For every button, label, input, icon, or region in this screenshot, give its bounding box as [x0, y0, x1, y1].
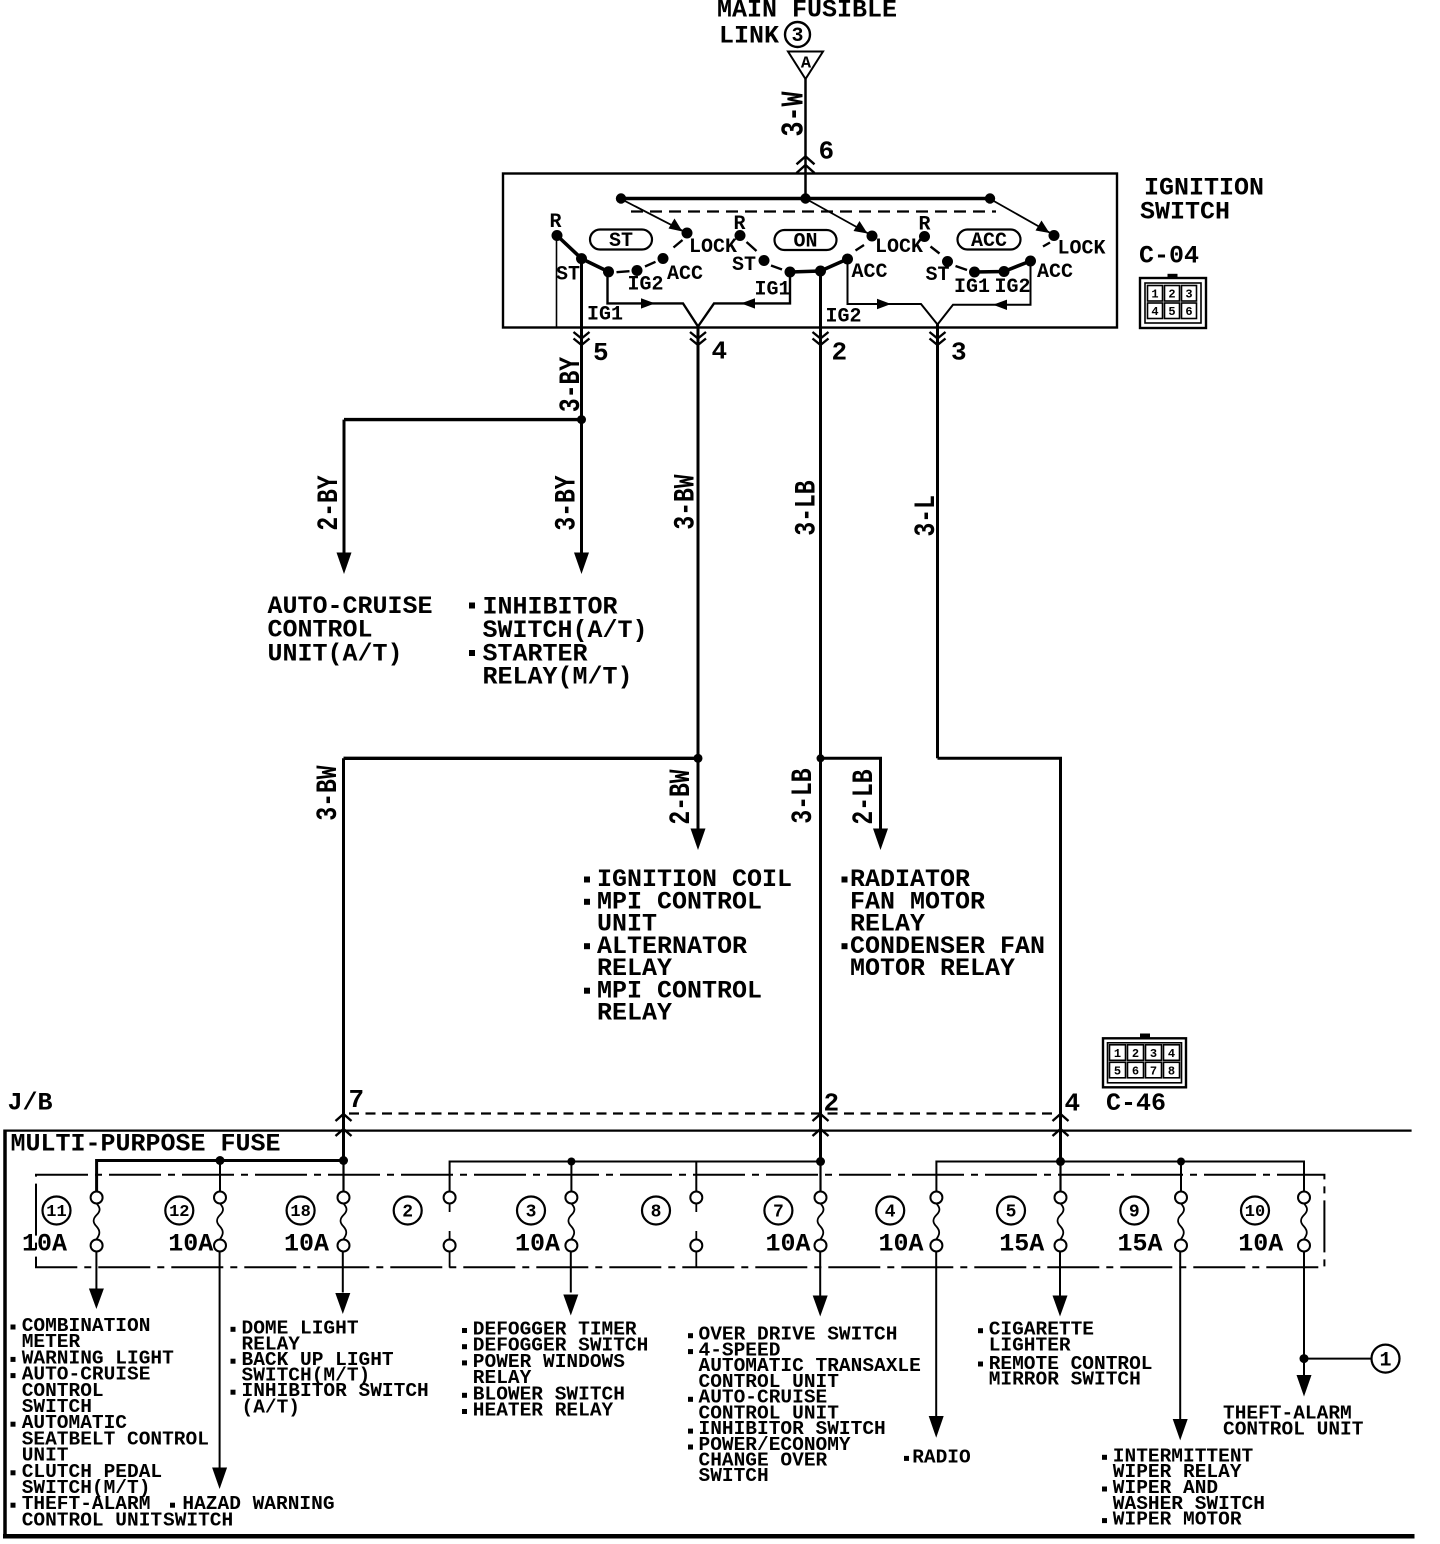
ST pill	[590, 230, 652, 254]
arrow 2-BY	[337, 553, 352, 575]
svg-text:ACC: ACC	[667, 263, 703, 286]
wire fuse9 out	[1179, 1252, 1181, 1420]
svg-text:3: 3	[1150, 1047, 1157, 1061]
wire fuse4 out	[935, 1252, 937, 1417]
svg-text:3-BW: 3-BW	[670, 474, 704, 529]
wire 3-W	[804, 79, 807, 199]
svg-text:SWITCH: SWITCH	[1140, 198, 1230, 227]
svg-text:4: 4	[885, 1203, 896, 1223]
wire fuse10 out	[1303, 1252, 1305, 1376]
svg-text:3: 3	[951, 338, 967, 368]
svg-text:2: 2	[1132, 1047, 1139, 1061]
wire 3-BW long down	[342, 758, 345, 1161]
label INHIBITOR STARTER	[469, 593, 648, 692]
label IGNITION COIL block	[584, 865, 792, 1027]
svg-text:LOCK: LOCK	[875, 236, 923, 259]
ON contact labels	[732, 213, 923, 328]
svg-text:10A: 10A	[765, 1230, 810, 1259]
wire 3-L corner right	[938, 758, 1061, 1161]
svg-text:3: 3	[791, 25, 803, 48]
svg-text:ACC: ACC	[1037, 261, 1073, 284]
wire branch left long	[344, 757, 699, 760]
svg-text:R: R	[734, 213, 746, 236]
svg-text:MOTOR RELAY: MOTOR RELAY	[850, 954, 1015, 983]
svg-text:2-BW: 2-BW	[665, 769, 699, 824]
bus wire inside switch	[621, 197, 990, 200]
node branch 5	[577, 415, 586, 424]
fuse 9	[1117, 1192, 1187, 1259]
label radio	[904, 1446, 971, 1468]
svg-text:3-L: 3-L	[910, 495, 944, 536]
svg-text:5: 5	[1114, 1065, 1121, 1079]
label dome light block	[231, 1317, 429, 1418]
wire label 3-W	[777, 91, 812, 136]
connector chevrons pin 4 JB	[1053, 1114, 1069, 1136]
svg-text:ON: ON	[793, 231, 817, 254]
wire IG2 mid to pin 2	[819, 273, 822, 328]
label AUTO-CRUISE CONTROL UNIT	[268, 592, 433, 668]
svg-text:RADIO: RADIO	[912, 1446, 971, 1468]
fuse 8 empty	[642, 1192, 702, 1268]
ON arc dashes	[747, 242, 865, 270]
svg-text:LOCK: LOCK	[1058, 237, 1106, 260]
svg-text:CONTROL UNIT: CONTROL UNIT	[1223, 1418, 1364, 1440]
ignition switch box	[503, 174, 1117, 328]
connector chevrons pin 2 JB	[813, 1114, 829, 1136]
svg-text:10A: 10A	[878, 1230, 923, 1259]
fuse panel dash-dot border	[36, 1175, 1324, 1268]
label combination meter block	[11, 1315, 209, 1531]
connector chevrons pin 3	[930, 332, 946, 345]
svg-text:6: 6	[1185, 305, 1192, 319]
svg-text:RELAY(M/T): RELAY(M/T)	[483, 663, 633, 692]
svg-text:2: 2	[402, 1203, 413, 1223]
ACC contact labels	[919, 213, 1106, 298]
svg-text:4: 4	[712, 337, 728, 367]
dashed rotor line	[631, 210, 996, 212]
svg-text:1: 1	[1114, 1047, 1121, 1061]
svg-text:CONTROL UNIT: CONTROL UNIT	[22, 1509, 163, 1531]
rotor arm mid	[808, 200, 871, 235]
svg-text:8: 8	[1168, 1065, 1175, 1079]
rotor arm right	[992, 200, 1053, 235]
svg-text:15A: 15A	[1117, 1230, 1162, 1259]
svg-text:9: 9	[1129, 1203, 1140, 1223]
wire label 2-BY	[313, 475, 347, 530]
wire R drop	[556, 237, 558, 327]
ST switch contacts	[552, 228, 693, 278]
wire label 3-LB lower	[787, 768, 821, 823]
node bus left	[616, 193, 626, 203]
node bus right	[985, 193, 995, 203]
wire branch left	[344, 418, 582, 421]
bus C	[936, 1162, 1304, 1192]
svg-text:15A: 15A	[999, 1230, 1044, 1259]
multi-purpose fuse box	[5, 1129, 1412, 1131]
svg-text:3: 3	[526, 1203, 537, 1223]
label RADIATOR FAN block	[842, 865, 1046, 983]
fuse 12	[165, 1192, 226, 1259]
svg-text:10A: 10A	[284, 1230, 329, 1259]
label hazard warning switch	[163, 1493, 335, 1531]
svg-text:SWITCH: SWITCH	[699, 1465, 769, 1487]
wire label 3-BW lower	[312, 765, 346, 820]
svg-text:IG1: IG1	[755, 278, 791, 301]
svg-text:ST: ST	[556, 263, 580, 286]
svg-text:A: A	[801, 55, 812, 74]
wire label 2-BW	[665, 769, 699, 824]
svg-text:IG2: IG2	[628, 273, 664, 296]
wire branch 2-LB	[821, 758, 881, 829]
wire fuse7 out	[819, 1252, 821, 1297]
wire pin5 down	[580, 328, 583, 420]
svg-text:R: R	[919, 213, 931, 236]
svg-text:3-BY: 3-BY	[555, 357, 589, 412]
svg-text:3-BW: 3-BW	[312, 765, 346, 820]
svg-text:3-LB: 3-LB	[791, 480, 825, 535]
ON bridge	[790, 259, 848, 272]
svg-text:ST: ST	[732, 254, 756, 277]
fuse 3	[515, 1192, 577, 1259]
svg-text:1: 1	[1379, 1349, 1391, 1372]
svg-text:8: 8	[651, 1203, 662, 1223]
fuse 5	[997, 1192, 1067, 1259]
svg-text:7: 7	[773, 1203, 784, 1223]
fuse 10	[1238, 1192, 1310, 1259]
svg-text:IG1: IG1	[954, 276, 990, 299]
svg-text:3-BY: 3-BY	[551, 475, 585, 530]
svg-text:18: 18	[290, 1203, 310, 1222]
node bus mid	[800, 193, 810, 203]
svg-text:10A: 10A	[168, 1230, 213, 1259]
node branch 2	[817, 754, 825, 762]
ST bridge	[557, 236, 609, 272]
svg-text:ST: ST	[609, 230, 633, 253]
connector chevrons pin 5	[574, 332, 590, 345]
wire ST drop to pin 5	[580, 260, 583, 328]
svg-text:UNIT(A/T): UNIT(A/T)	[268, 639, 403, 668]
svg-text:2: 2	[1168, 288, 1175, 302]
svg-text:2-BY: 2-BY	[313, 475, 347, 530]
wire 3-BY down	[580, 420, 583, 553]
svg-text:ST: ST	[926, 264, 950, 287]
arrow 2-BW	[691, 829, 706, 851]
svg-text:2-LB: 2-LB	[848, 769, 882, 824]
svg-text:IG1: IG1	[587, 304, 623, 327]
svg-text:WIPER MOTOR: WIPER MOTOR	[1113, 1509, 1242, 1531]
svg-text:LOCK: LOCK	[689, 236, 737, 259]
svg-text:1: 1	[1151, 288, 1158, 302]
wire pin4 down	[697, 328, 700, 759]
node split 4	[694, 754, 703, 763]
circled 3	[785, 22, 810, 47]
dashed junction line	[349, 1112, 1058, 1114]
bus B	[450, 1162, 821, 1192]
svg-text:6: 6	[819, 137, 835, 167]
ACC pill	[958, 230, 1021, 254]
wire fuse5 out	[1059, 1252, 1061, 1297]
svg-text:3-W: 3-W	[777, 91, 812, 136]
fusible link symbol A	[788, 52, 823, 80]
svg-text:4: 4	[1065, 1089, 1081, 1119]
wire label 2-LB	[848, 769, 882, 824]
connector C-46	[1103, 1034, 1186, 1088]
svg-text:2: 2	[832, 338, 848, 368]
wire label 3-LB upper	[791, 480, 825, 535]
svg-text:IG2: IG2	[995, 276, 1031, 299]
svg-text:5: 5	[593, 338, 609, 368]
connector C-04	[1140, 274, 1206, 328]
wire ACC right merge	[938, 263, 1031, 325]
wire ACC mid merge	[848, 261, 938, 325]
wire IG1 left merge	[608, 273, 699, 327]
ACC switch contacts	[919, 230, 1060, 278]
svg-text:10: 10	[1245, 1203, 1265, 1222]
ST contact labels	[550, 211, 738, 327]
svg-text:3: 3	[1185, 288, 1192, 302]
svg-text:2: 2	[824, 1089, 840, 1119]
wire fuse12 out	[219, 1252, 221, 1469]
svg-text:4: 4	[1151, 305, 1158, 319]
svg-text:7: 7	[1150, 1065, 1157, 1079]
label over drive block	[688, 1324, 921, 1488]
connector chevrons pin 6	[797, 156, 815, 173]
fuse 18	[284, 1192, 350, 1259]
circled 1	[1372, 1345, 1400, 1373]
wire fuse3 out	[570, 1252, 572, 1293]
svg-text:LINK: LINK	[719, 22, 779, 51]
svg-text:C-04: C-04	[1139, 241, 1199, 270]
wire label 3-BW upper	[670, 474, 704, 529]
ACC arc dashes	[931, 243, 1051, 271]
svg-text:ACC: ACC	[971, 230, 1007, 253]
rotor arm left	[623, 200, 686, 233]
label cigarette block	[978, 1319, 1153, 1391]
fuse 2 empty	[394, 1192, 456, 1268]
wire label 3-BY upper	[555, 357, 589, 412]
wire label 3-BY lower	[551, 475, 585, 530]
connector chevrons pin 7	[336, 1114, 352, 1136]
label defogger block	[462, 1319, 648, 1422]
svg-text:SWITCH: SWITCH	[163, 1509, 233, 1531]
svg-text:HEATER RELAY: HEATER RELAY	[473, 1400, 614, 1422]
label wiper block	[1102, 1445, 1265, 1530]
wire pin2 down	[819, 328, 822, 1162]
arrow 3-BY	[574, 553, 589, 575]
svg-text:5: 5	[1168, 305, 1175, 319]
svg-text:4: 4	[1168, 1047, 1175, 1061]
svg-text:10A: 10A	[1238, 1230, 1283, 1259]
svg-text:C-46: C-46	[1106, 1089, 1166, 1118]
svg-text:J/B: J/B	[8, 1088, 53, 1117]
wire 2-BW down	[697, 758, 700, 829]
ACC bridge	[975, 261, 1031, 272]
ON switch contacts	[735, 230, 878, 278]
svg-text:5: 5	[1006, 1203, 1017, 1223]
arrow 2-LB	[873, 829, 888, 851]
svg-text:MIRROR SWITCH: MIRROR SWITCH	[989, 1368, 1141, 1390]
fuse 4	[876, 1192, 942, 1259]
svg-text:3-LB: 3-LB	[787, 768, 821, 823]
svg-text:11: 11	[46, 1203, 66, 1222]
svg-text:10A: 10A	[515, 1230, 560, 1259]
svg-text:(A/T): (A/T)	[242, 1397, 301, 1419]
svg-text:10A: 10A	[22, 1230, 67, 1259]
svg-text:6: 6	[1132, 1065, 1139, 1079]
wire fuse18 out	[342, 1252, 344, 1293]
svg-text:ACC: ACC	[852, 261, 888, 284]
fuse 7	[764, 1192, 826, 1259]
svg-text:IG2: IG2	[826, 305, 862, 328]
wire merge to pin 3	[936, 325, 939, 328]
svg-text:MULTI-PURPOSE FUSE: MULTI-PURPOSE FUSE	[11, 1129, 281, 1158]
wire fuse11 out	[95, 1252, 97, 1290]
connector chevrons pin 2	[813, 332, 829, 345]
fuse 11	[22, 1192, 103, 1259]
wire label 3-L	[910, 495, 944, 536]
connector chevrons pin 4	[690, 332, 706, 345]
svg-text:7: 7	[349, 1085, 365, 1115]
wire to circle 1	[1304, 1358, 1372, 1360]
ST arc dashes	[617, 240, 683, 272]
ON pill	[775, 230, 837, 254]
svg-text:12: 12	[169, 1203, 189, 1222]
svg-text:R: R	[550, 211, 562, 234]
wire IG1 mid merge	[698, 274, 790, 327]
wire 2-BY down	[343, 420, 346, 553]
svg-text:RELAY: RELAY	[597, 999, 672, 1028]
wire pin3 down	[936, 328, 939, 759]
bus A	[97, 1161, 344, 1192]
